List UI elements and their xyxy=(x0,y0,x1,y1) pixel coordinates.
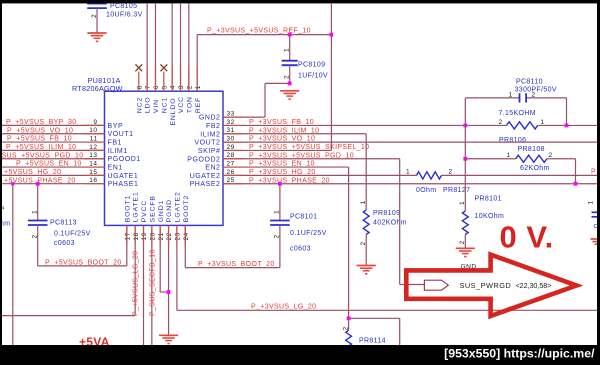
U1 pin number 4 xyxy=(170,85,177,89)
U1 reference designator PU8101A xyxy=(88,76,121,85)
PC8113 package c0603 xyxy=(54,240,75,247)
PC8110 pin number 1 xyxy=(509,92,513,99)
PC8113 pin number 1 xyxy=(31,210,38,214)
svg-text:3300PF/50V: 3300PF/50V xyxy=(515,86,557,93)
svg-text:FB2: FB2 xyxy=(206,123,221,130)
svg-text:11: 11 xyxy=(90,135,98,142)
wire net P_+3VSUS_FB_10 (pin 32) xyxy=(223,124,597,126)
svg-text:P_+5VSUS_BOOT_20: P_+5VSUS_BOOT_20 xyxy=(45,259,122,266)
ground below PGND xyxy=(159,335,178,344)
wire net P_+5VSUS_LG_20 (pin 18) xyxy=(2,225,135,315)
U1 pin number 15 xyxy=(89,169,97,176)
PR8127 pin number 1 xyxy=(406,169,410,176)
wire net P_+5VSUS_EN_10 (pin 14) xyxy=(2,166,105,168)
net label P_+5VSUS_LG_20 (rotated) xyxy=(133,251,140,316)
svg-text:EN1: EN1 xyxy=(108,165,123,172)
PC8101 pin number 1 xyxy=(274,210,281,214)
svg-text:1: 1 xyxy=(541,119,545,126)
U1 pin name PGOOD1 xyxy=(108,156,141,163)
svg-text:P_+3VSUS_LG_20: P_+3VSUS_LG_20 xyxy=(251,303,316,310)
svg-text:2: 2 xyxy=(360,241,367,245)
svg-text:TON: TON xyxy=(186,96,193,113)
annotation text 0 V. xyxy=(500,220,554,255)
resistor PR8106 7.15KOHM xyxy=(507,122,538,129)
PR8106 pin number 1 xyxy=(541,119,545,126)
svg-text:P_+5VSUS_VO_10: P_+5VSUS_VO_10 xyxy=(7,127,73,134)
port name SUS_PWRGD xyxy=(460,281,512,290)
svg-text:10: 10 xyxy=(89,127,97,134)
PC8101 reference designator xyxy=(290,214,317,221)
wire PGND (pin 22) xyxy=(168,225,170,335)
U1 pin name ILIM1 xyxy=(108,148,128,155)
U1 pin name SECFB xyxy=(149,195,156,222)
U1 pin name FB2 xyxy=(206,123,221,130)
svg-text:BOOT1: BOOT1 xyxy=(124,195,131,223)
svg-text:P_+5VSUS_BYP_30: P_+5VSUS_BYP_30 xyxy=(6,119,76,126)
net label P_+3VSUS_BOOT_20 xyxy=(198,261,275,268)
svg-text:0.1UF/25V: 0.1UF/25V xyxy=(54,230,91,237)
svg-text:PC8109: PC8109 xyxy=(298,62,325,69)
net label P_+3VSUS_+5VSUS_SKIPSEL_10 xyxy=(249,144,369,151)
svg-text:LDO: LDO xyxy=(145,96,152,113)
resistor PR8127 0Ohm xyxy=(417,172,442,179)
op-amp U1 controller PU8101A RT8206AGQW box xyxy=(105,91,224,225)
svg-text:62KOhm: 62KOhm xyxy=(520,165,550,172)
svg-text:NC2: NC2 xyxy=(136,97,143,113)
wire net P_+5VSUS_FB_10 (pin 11) xyxy=(2,141,105,143)
wire 62KOhm branch from FB divider junction xyxy=(465,159,575,184)
svg-text:BYP: BYP xyxy=(108,123,124,130)
svg-text:15: 15 xyxy=(89,169,97,176)
PR8109 pin number 1 xyxy=(360,200,367,204)
PR8106 reference designator xyxy=(499,137,526,144)
svg-text:PR8106: PR8106 xyxy=(499,137,526,144)
svg-text:6: 6 xyxy=(153,85,160,89)
U1 pin name LGATE1 xyxy=(133,191,140,222)
svg-text:2: 2 xyxy=(449,169,453,176)
wire net P_+3VSUS_+5VSUS_SKIPSEL_10 (pin 29) xyxy=(223,149,331,151)
U1 pin number 22 xyxy=(166,232,173,240)
U1 pin name FB1 xyxy=(108,140,123,147)
svg-text:1: 1 xyxy=(509,92,513,99)
no-connect X on pin 5 (NC1) xyxy=(160,64,167,91)
junction on EN branch xyxy=(347,316,351,320)
svg-text:PR8108: PR8108 xyxy=(518,146,545,153)
PR8101 reference designator xyxy=(475,196,502,203)
PR8101 pin number 2 xyxy=(459,240,466,244)
svg-text:10UF/6.3V: 10UF/6.3V xyxy=(106,11,143,18)
svg-text:P_+3VSUS_HG_20: P_+3VSUS_HG_20 xyxy=(249,169,316,176)
wire RC loop left vertical xyxy=(464,98,466,159)
wire to U1 pin 1 (top) xyxy=(188,4,190,92)
wire net P_SUS_SECFB_10 (pin 20) xyxy=(151,225,153,345)
svg-text:PC8113: PC8113 xyxy=(50,220,77,227)
svg-text:FB1: FB1 xyxy=(108,140,123,147)
U1 pin name BYP xyxy=(108,123,124,130)
svg-text:LGATE1: LGATE1 xyxy=(133,191,140,222)
svg-text:P_+3VSUS_BOOT_20: P_+3VSUS_BOOT_20 xyxy=(198,261,275,268)
PR8109 value 402KOhm xyxy=(373,219,407,226)
port sheet references <22,30,58> xyxy=(516,281,552,290)
svg-text:17: 17 xyxy=(124,232,131,240)
svg-text:1: 1 xyxy=(588,200,595,204)
svg-text:2: 2 xyxy=(274,234,281,238)
capacitor PC8109 xyxy=(282,35,298,84)
capacitor PC8113 xyxy=(28,184,48,266)
U1 pin number 28 xyxy=(227,152,235,159)
svg-text:4: 4 xyxy=(170,85,177,89)
wire net P_+3VSUS_BOOT_20 (pin 24) xyxy=(185,225,280,267)
PC8109 reference designator xyxy=(298,62,325,69)
PC8113 reference designator xyxy=(50,220,77,227)
ground label GND xyxy=(461,264,477,271)
ground below PR8101 xyxy=(456,248,475,257)
wire to U1 pin 6 (top) xyxy=(154,4,156,92)
U1 pin name REF xyxy=(195,97,202,113)
svg-text:7: 7 xyxy=(145,85,152,89)
PC8109 pin number 1 xyxy=(283,48,290,52)
svg-text:PR8114: PR8114 xyxy=(359,337,386,344)
svg-text:33: 33 xyxy=(227,111,235,118)
U1 pin number 5 xyxy=(161,85,168,89)
svg-text:VIN: VIN xyxy=(153,99,160,113)
svg-text:7.15KOHM: 7.15KOHM xyxy=(499,110,536,117)
svg-text:ENLDO: ENLDO xyxy=(170,98,177,126)
clipped capacitor at right edge xyxy=(592,212,598,217)
U1 pin number 17 xyxy=(124,232,131,240)
U1 pin name LGATE2 xyxy=(175,191,182,222)
svg-text:P_+3VSUS_+5VSUS_PGD_10: P_+3VSUS_+5VSUS_PGD_10 xyxy=(249,152,354,159)
svg-text:2: 2 xyxy=(91,14,98,18)
junction GND1/PGND xyxy=(167,290,171,294)
junction PHASE net at 62K drop xyxy=(574,182,578,186)
U1 pin number 27 xyxy=(227,160,235,167)
svg-text:12: 12 xyxy=(89,144,97,151)
svg-text:21: 21 xyxy=(158,232,165,240)
svg-text:c0603: c0603 xyxy=(54,240,75,247)
resistor PR8109 402KOhm xyxy=(363,210,369,266)
svg-text:0Ohm: 0Ohm xyxy=(416,187,436,194)
watermark text xyxy=(444,346,595,360)
junction on REF net at PC8109 xyxy=(288,33,292,37)
junction PHASE left net at edge resistor xyxy=(11,182,14,185)
svg-text:SUS_PWRGD: SUS_PWRGD xyxy=(460,281,512,290)
ground below PC8105 xyxy=(87,33,106,42)
svg-text:2: 2 xyxy=(549,152,553,159)
U1 pin number 16 xyxy=(89,177,97,184)
output port SUS_PWRGD xyxy=(424,280,448,290)
wire net P_+3VSUS_VO_10 (pin 30) xyxy=(223,141,597,143)
wire to U1 pin 2 (top) xyxy=(180,4,182,92)
U1 pin number 32 xyxy=(227,119,235,126)
U1 pin name PGOOD2 xyxy=(187,156,220,163)
net label P_SUS_SECFB_10 (rotated) xyxy=(149,249,156,316)
PC8109 value 1UF/10V xyxy=(298,72,328,79)
U1 pin name GND2 xyxy=(199,115,221,122)
PR8114 reference designator xyxy=(359,337,386,344)
PR8106 value 7.15KOHM xyxy=(499,110,536,117)
U1 pin number 10 xyxy=(89,127,97,134)
svg-text:1: 1 xyxy=(31,210,38,214)
U1 pin name UGATE1 xyxy=(108,173,139,180)
PR8108 reference designator xyxy=(518,146,545,153)
svg-text:29: 29 xyxy=(227,144,235,151)
svg-text:+5VSUS_PHASE_20: +5VSUS_PHASE_20 xyxy=(4,177,76,184)
svg-text:22: 22 xyxy=(166,232,173,240)
PR8114 pin number 2 xyxy=(342,326,349,330)
svg-text:1: 1 xyxy=(360,200,367,204)
wire net GND2 (pin 33) xyxy=(223,83,290,117)
wire net P_+5VSUS_HG_20 (pin 15) xyxy=(2,174,105,176)
edge component pin number 2 xyxy=(0,205,6,209)
net label P_+5VSUS_FB_10 xyxy=(7,136,72,143)
net label P_+3VSUS_+5VSUS_PGD_10 xyxy=(249,152,354,159)
svg-text:P_+3VSUS_EN_10: P_+3VSUS_EN_10 xyxy=(249,161,315,168)
PR8108 value 62KOhm xyxy=(520,165,550,172)
svg-text:PGOOD2: PGOOD2 xyxy=(187,156,220,163)
U1 pin number 26 xyxy=(227,169,235,176)
junction at PC8109 pin 2 xyxy=(288,82,292,86)
wire RC loop right vertical xyxy=(566,98,568,126)
svg-text:PR8101: PR8101 xyxy=(475,196,502,203)
no-connect X on pin 8 (NC2) xyxy=(135,64,142,91)
net label P_+3VSUS_ILIM_10 xyxy=(249,127,319,134)
svg-text:P_+3VSUS_VO_10: P_+3VSUS_VO_10 xyxy=(249,136,315,143)
U1 pin number 33 xyxy=(227,111,235,118)
svg-text:PHASE2: PHASE2 xyxy=(190,181,221,188)
svg-text:SKIP#: SKIP# xyxy=(198,148,221,155)
PC8113 value 0.1UF/25V xyxy=(54,230,91,237)
svg-text:PGOOD1: PGOOD1 xyxy=(108,156,141,163)
U1 pin number 30 xyxy=(227,135,235,142)
U1 pin number 6 xyxy=(153,85,160,89)
PC8110 reference designator xyxy=(516,79,543,86)
svg-text:ILIM2: ILIM2 xyxy=(200,131,220,138)
svg-text:PGND: PGND xyxy=(166,199,173,222)
svg-text:2: 2 xyxy=(499,119,503,126)
svg-text:ILIM1: ILIM1 xyxy=(108,148,128,155)
svg-text:RT8206AGQW: RT8206AGQW xyxy=(72,84,123,93)
svg-text:P_+3VSUS_FB_10: P_+3VSUS_FB_10 xyxy=(249,119,314,126)
svg-text:20: 20 xyxy=(149,232,156,240)
junction at FB divider node xyxy=(463,157,467,161)
U1 pin number 23 xyxy=(175,232,182,240)
svg-text:2: 2 xyxy=(459,240,466,244)
net label P_+5VSUS_BOOT_20 xyxy=(45,259,122,266)
U1 pin name PGND xyxy=(166,199,173,222)
U1 pin name SKIP# xyxy=(198,148,221,155)
U1 pin number 31 xyxy=(227,127,235,134)
svg-text:8: 8 xyxy=(136,85,143,89)
net label P_+3VSUS_HG_20 xyxy=(249,169,316,176)
U1 pin number 11 xyxy=(90,135,98,142)
net label P_+3VSUS_LG_20 xyxy=(251,303,316,310)
wire to U1 pin 7 (top) xyxy=(146,4,148,92)
svg-text:VCC: VCC xyxy=(178,96,185,113)
annotation big red arrow xyxy=(406,255,576,316)
ground below PC8109 xyxy=(280,91,299,100)
PR8108 pin number 1 xyxy=(507,152,511,159)
svg-text:24: 24 xyxy=(183,232,190,240)
PC8105 value 10UF/6.3V xyxy=(106,11,143,18)
svg-text:0.1UF/25V: 0.1UF/25V xyxy=(290,230,327,237)
svg-text:GND2: GND2 xyxy=(199,115,221,122)
PR8101 pin number 1 xyxy=(459,201,466,205)
svg-text:5: 5 xyxy=(161,85,168,89)
U1 pin number 7 xyxy=(145,85,152,89)
wire net P_+3VSUS_+5VSUS_PGD_10 (pin 28) xyxy=(223,159,424,285)
PC8110 pin number 2 xyxy=(532,92,536,99)
U1 pin name PHASE1 xyxy=(108,181,139,188)
svg-text:1: 1 xyxy=(283,48,290,52)
svg-text:2: 2 xyxy=(283,75,290,79)
svg-text:EN2: EN2 xyxy=(205,165,220,172)
PC8101 value 0.1UF/25V xyxy=(290,230,327,237)
svg-text:GND1: GND1 xyxy=(158,200,165,222)
U1 pin name BOOT2 xyxy=(183,195,190,223)
wire FB divider to PR8101 xyxy=(464,159,466,211)
U1 part value RT8206AGQW xyxy=(72,84,123,93)
power net label +5VA xyxy=(79,335,110,349)
net label P_+3VSUS_PHASE_20 xyxy=(249,177,330,184)
U1 pin name UGATE2 xyxy=(190,173,221,180)
svg-text:16: 16 xyxy=(89,177,97,184)
U1 pin name VOUT2 xyxy=(194,140,220,147)
svg-text:P: P xyxy=(591,169,596,176)
svg-text:c: c xyxy=(594,223,598,230)
U1 pin name GND1 xyxy=(158,200,165,222)
PC8101 pin number 2 xyxy=(274,234,281,238)
clipped capacitor pin number 1 xyxy=(588,200,595,204)
PR8109 reference designator xyxy=(373,210,400,217)
svg-text:402KOhm: 402KOhm xyxy=(373,219,407,226)
svg-text:NC1: NC1 xyxy=(161,97,168,113)
svg-text:P_+3VSUS_+5VSUS_REF_10: P_+3VSUS_+5VSUS_REF_10 xyxy=(207,27,311,34)
U1 pin name NC1 xyxy=(161,97,168,113)
net label fragment P at right edge xyxy=(591,169,596,176)
wire net P_SUS_+5VSUS_PGD_10 (pin 13) xyxy=(2,158,105,160)
U1 pin name ILIM2 xyxy=(200,131,220,138)
wire from PHASE left net down at image edge xyxy=(12,184,14,345)
U1 pin name PHASE2 xyxy=(190,181,221,188)
capacitor PC8101 xyxy=(270,184,290,268)
svg-text:28: 28 xyxy=(227,152,235,159)
U1 pin name ENLDO xyxy=(170,98,177,126)
U1 pin name VCC xyxy=(178,96,185,113)
wire net P_+5VSUS_BYP_30 (pin 9) xyxy=(2,124,105,126)
PR8109 pin number 2 xyxy=(360,241,367,245)
svg-text:P_+3VSUS_+5VSUS_SKIPSEL_10: P_+3VSUS_+5VSUS_SKIPSEL_10 xyxy=(249,144,369,151)
U1 pin name LDO xyxy=(145,96,152,113)
U1 pin number 20 xyxy=(149,232,156,240)
svg-text:0 V.: 0 V. xyxy=(500,220,554,255)
svg-text:1: 1 xyxy=(274,210,281,214)
svg-text:P_+5VSUS_FB_10: P_+5VSUS_FB_10 xyxy=(7,136,72,143)
ground below PR8109 xyxy=(357,266,376,275)
svg-text:c0603: c0603 xyxy=(290,245,311,252)
capacitor PC8110 branch wires xyxy=(465,97,566,99)
svg-text:VOUT1: VOUT1 xyxy=(108,131,134,138)
U1 pin number 21 xyxy=(158,232,165,240)
svg-text:14: 14 xyxy=(89,160,97,167)
svg-text:P_SUS_SECFB_10: P_SUS_SECFB_10 xyxy=(149,249,156,316)
svg-text:18: 18 xyxy=(133,232,140,240)
svg-text:PR8109: PR8109 xyxy=(373,210,400,217)
U1 pin number 13 xyxy=(89,152,97,159)
net label P_+3VSUS_EN_10 xyxy=(249,161,315,168)
net label P_+5VSUS_VO_10 xyxy=(7,127,73,134)
net label P_+5VSUS_EN_10 xyxy=(16,161,82,168)
U1 pin name VIN xyxy=(153,99,160,113)
clipped ground at right edge xyxy=(591,239,598,244)
net label P_+5VSUS_ILIM_10 xyxy=(6,144,76,151)
svg-text:[953x550] https://upic.me/: [953x550] https://upic.me/ xyxy=(444,346,595,360)
svg-text:P_+3VSUS_PHASE_20: P_+3VSUS_PHASE_20 xyxy=(249,177,330,184)
wire net P_+5VSUS_BOOT_20 (pin 17) xyxy=(38,225,127,266)
wire net P_+3VSUS_ILIM_10 (pin 31) xyxy=(223,134,366,210)
svg-text:LGATE2: LGATE2 xyxy=(175,191,182,222)
PR8106 pin number 2 xyxy=(499,119,503,126)
wire to U1 pin 3 (top) xyxy=(171,4,173,92)
junction FB net left of RC network xyxy=(463,124,467,128)
U1 pin number 12 xyxy=(89,144,97,151)
svg-text:PVCC: PVCC xyxy=(141,200,148,222)
svg-text:P_+5VSUS_ILIM_10: P_+5VSUS_ILIM_10 xyxy=(6,144,76,151)
wire net P_+3VSUS_LG_20 (pin 23) xyxy=(177,225,597,310)
net label P_+5VSUS_BYP_30 xyxy=(6,119,76,126)
capacitor PC8110 xyxy=(520,93,527,102)
svg-text:2: 2 xyxy=(186,85,193,89)
U1 pin name NC2 xyxy=(136,97,143,113)
svg-text:31: 31 xyxy=(227,127,235,134)
edge component value fragment hm xyxy=(0,220,10,227)
net label P_+3VSUS_FB_10 xyxy=(249,119,314,126)
U1 pin number 24 xyxy=(183,232,190,240)
U1 pin name PVCC xyxy=(141,200,148,222)
svg-text:23: 23 xyxy=(175,232,182,240)
PC8101 package c0603 xyxy=(290,245,311,252)
svg-text:2: 2 xyxy=(342,326,349,330)
U1 pin number 2 xyxy=(186,85,193,89)
wire EN branch to right drop xyxy=(349,318,400,345)
svg-text:UGATE1: UGATE1 xyxy=(108,173,139,180)
wire net P_+3VSUS_EN_10 (pin 27) xyxy=(223,167,349,330)
junction PHASE left net at PC8113 xyxy=(36,182,40,186)
PR8127 reference designator xyxy=(443,187,470,194)
wire net P_+3VSUS_PHASE_20 (pin 25) xyxy=(223,183,597,185)
svg-text:25: 25 xyxy=(227,177,235,184)
svg-text:1: 1 xyxy=(195,85,202,89)
wire net P_+3VSUS_+5VSUS_REF_10 (pin 1 REF) xyxy=(197,4,331,151)
wire GND1 (pin 21) xyxy=(160,225,168,292)
U1 pin number 9 xyxy=(93,119,97,126)
svg-text:32: 32 xyxy=(227,119,235,126)
net label P_+3VSUS_+5VSUS_REF_10 xyxy=(207,27,311,34)
svg-text:SECFB: SECFB xyxy=(149,195,156,222)
U1 pin number 19 xyxy=(141,232,148,240)
PC8105 reference designator xyxy=(110,3,137,10)
svg-text:1: 1 xyxy=(459,201,466,205)
junction on REF net at vertical drop xyxy=(330,33,334,37)
svg-text:27: 27 xyxy=(227,160,235,167)
svg-text:VOUT2: VOUT2 xyxy=(194,140,220,147)
PC8110 value 3300PF/50V xyxy=(515,86,557,93)
net label SUS_+5VSUS_PGD_10 xyxy=(2,152,84,159)
capacitor PC8105 xyxy=(87,0,107,33)
bottom watermark bar xyxy=(0,345,600,365)
wire net PVCC (pin 19) xyxy=(143,225,145,345)
U1 pin number 3 xyxy=(178,85,185,89)
